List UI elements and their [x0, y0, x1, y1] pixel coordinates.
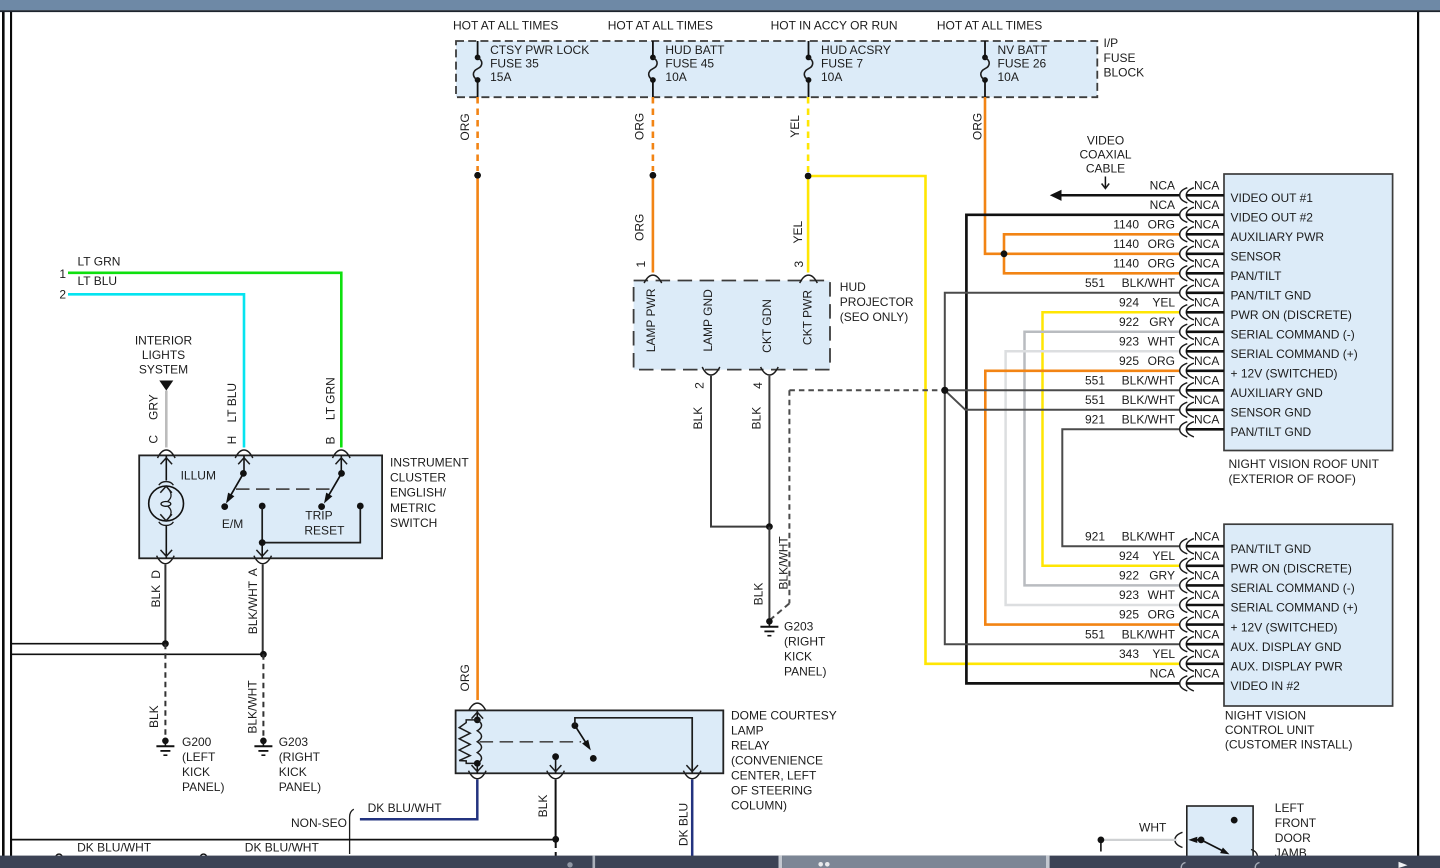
splice symbol left	[56, 854, 63, 861]
svg-text:551: 551	[1085, 627, 1105, 641]
svg-text:NV BATT: NV BATT	[998, 43, 1048, 57]
svg-text:FUSE 45: FUSE 45	[665, 57, 714, 71]
wire ORG from fuse 45 (dashed)	[652, 97, 655, 171]
roof unit pin VIDEO OUT #2 (NCA)	[1150, 198, 1314, 225]
wire BLK from relay	[555, 780, 557, 840]
wire 923 WHT SERIAL COMMAND (+)	[1006, 351, 1180, 605]
HUD projector box (SEO only)	[634, 281, 830, 370]
svg-text:COLUMN): COLUMN)	[731, 798, 787, 812]
svg-text:ORG: ORG	[970, 113, 984, 140]
svg-text:551: 551	[1085, 373, 1105, 387]
wire NCA black loop VIDEO OUT #2 to VIDEO IN #2	[966, 215, 1179, 684]
svg-text:(EXTERIOR OF ROOF): (EXTERIOR OF ROOF)	[1229, 472, 1356, 486]
junction dot fuse45 wire (redraw)	[650, 172, 657, 179]
svg-text:B: B	[323, 436, 337, 444]
svg-text:AUX. DISPLAY GND: AUX. DISPLAY GND	[1231, 640, 1342, 654]
svg-text:15A: 15A	[490, 70, 511, 84]
roof unit pin PWR ON (DISCRETE) (924 YEL)	[1119, 295, 1352, 322]
door box pin arc	[1251, 850, 1258, 857]
wire ORG fuse45 to HUD projector pin 1	[652, 175, 655, 272]
junction BLK / DK BLU/WHT	[552, 836, 559, 843]
svg-text:ORG: ORG	[1148, 256, 1175, 270]
control unit pin AUX. DISPLAY PWR (343 YEL)	[1119, 647, 1343, 674]
pin H connector arc	[235, 450, 253, 458]
svg-text:ORG: ORG	[633, 113, 647, 140]
svg-text:RELAY: RELAY	[731, 738, 769, 752]
svg-text:CLUSTER: CLUSTER	[390, 471, 446, 485]
svg-text:VIDEO: VIDEO	[1087, 133, 1124, 147]
svg-text:NCA: NCA	[1194, 237, 1219, 251]
svg-text:1140: 1140	[1113, 217, 1139, 231]
svg-text:BLK/WHT: BLK/WHT	[1122, 529, 1176, 543]
dashed actuator link	[236, 488, 330, 490]
svg-text:NIGHT VISION: NIGHT VISION	[1225, 708, 1306, 722]
svg-text:HOT AT ALL TIMES: HOT AT ALL TIMES	[937, 19, 1042, 33]
night vision control unit box (customer install)	[1224, 524, 1393, 706]
svg-text:AUXILIARY GND: AUXILIARY GND	[1231, 386, 1324, 400]
svg-text:923: 923	[1119, 588, 1139, 602]
svg-text:GRY: GRY	[1149, 569, 1175, 583]
svg-text:FUSE 35: FUSE 35	[490, 57, 539, 71]
wire from left margin to BLK junction	[12, 643, 166, 645]
svg-text:TRIP: TRIP	[305, 509, 332, 523]
svg-text:YEL: YEL	[1152, 549, 1175, 563]
svg-text:CENTER, LEFT: CENTER, LEFT	[731, 768, 817, 782]
svg-text:4: 4	[751, 382, 765, 389]
wire ORG from fuse 35 (dashed)	[476, 97, 479, 171]
svg-text:CKT GDN: CKT GDN	[760, 299, 774, 353]
svg-text:(RIGHT: (RIGHT	[279, 750, 321, 764]
svg-text:(RIGHT: (RIGHT	[784, 634, 826, 648]
svg-text:BLK/WHT: BLK/WHT	[1122, 393, 1176, 407]
svg-text:ORG: ORG	[633, 214, 647, 241]
svg-text:NON-SEO: NON-SEO	[291, 816, 347, 830]
svg-text:KICK: KICK	[182, 765, 210, 779]
junction on fuse35 ORG wire	[474, 172, 481, 179]
svg-text:BLK/WHT: BLK/WHT	[1122, 373, 1176, 387]
svg-text:343: 343	[1119, 647, 1139, 661]
wire ORG fuse35 to relay	[476, 175, 479, 700]
svg-text:HOT AT ALL TIMES: HOT AT ALL TIMES	[608, 19, 713, 33]
ground G203 (right kick panel, HUD)	[760, 618, 826, 678]
svg-text:ORG: ORG	[458, 113, 472, 140]
switch TRIP RESET	[304, 455, 347, 537]
roof unit pin SERIAL COMMAND (+) (923 WHT)	[1119, 334, 1358, 361]
wire GRY to cluster pin C	[165, 391, 168, 448]
svg-text:BLK: BLK	[536, 795, 550, 818]
control unit pin SERIAL COMMAND (+) (923 WHT)	[1119, 588, 1358, 615]
svg-text:VIDEO OUT #1: VIDEO OUT #1	[1231, 191, 1314, 205]
svg-text:NIGHT VISION ROOF UNIT: NIGHT VISION ROOF UNIT	[1229, 457, 1380, 471]
svg-text:NCA: NCA	[1150, 667, 1175, 681]
relay coil	[459, 710, 483, 773]
svg-text:SENSOR: SENSOR	[1231, 250, 1282, 264]
svg-text:+ 12V (SWITCHED): + 12V (SWITCHED)	[1231, 620, 1338, 634]
svg-text:LT BLU: LT BLU	[225, 383, 239, 423]
svg-text:VIDEO OUT #2: VIDEO OUT #2	[1231, 211, 1314, 225]
svg-text:INSTRUMENT: INSTRUMENT	[390, 456, 469, 470]
svg-text:NCA: NCA	[1194, 256, 1219, 270]
svg-text:PAN/TILT GND: PAN/TILT GND	[1231, 425, 1312, 439]
svg-text:WHT: WHT	[1139, 820, 1167, 834]
pin 3 connector arc	[800, 275, 818, 283]
night vision roof unit box (exterior of roof)	[1224, 174, 1393, 451]
relay pin arcs	[469, 771, 487, 779]
svg-text:H: H	[225, 436, 239, 445]
svg-text:FUSE: FUSE	[1104, 51, 1136, 65]
svg-text:ILLUM: ILLUM	[181, 468, 216, 482]
ground G203 (right kick panel)	[254, 735, 321, 794]
svg-text:E/M: E/M	[222, 517, 243, 531]
svg-text:AUX. DISPLAY PWR: AUX. DISPLAY PWR	[1231, 660, 1344, 674]
fuse F35 (CTSY PWR LOCK FUSE 35 15A)	[473, 41, 589, 97]
svg-text:LAMP: LAMP	[731, 723, 764, 737]
svg-text:923: 923	[1119, 334, 1139, 348]
roof unit pin AUXILIARY PWR (1140 ORG)	[1113, 217, 1324, 244]
wire YEL fuse7 to HUD projector pin 3	[807, 176, 810, 273]
svg-text:NCA: NCA	[1150, 198, 1175, 212]
control unit pin SERIAL COMMAND (-) (922 GRY)	[1119, 569, 1355, 596]
wire DK BLU/WHT from relay (non-SEO)	[360, 780, 477, 820]
svg-text:921: 921	[1085, 412, 1105, 426]
door switch connector arc	[1175, 832, 1183, 847]
svg-text:NCA: NCA	[1150, 178, 1175, 192]
svg-text:AUXILIARY PWR: AUXILIARY PWR	[1231, 230, 1325, 244]
svg-text:LAMP GND: LAMP GND	[701, 289, 715, 352]
svg-text:ORG: ORG	[1148, 608, 1175, 622]
svg-text:PWR ON (DISCRETE): PWR ON (DISCRETE)	[1231, 308, 1352, 322]
wire BLK from HUD pin 2	[711, 376, 769, 527]
wire 922 GRY SERIAL COMMAND (-)	[1025, 332, 1180, 586]
fuse F45 (HUD BATT FUSE 45 10A)	[649, 41, 725, 97]
ground G200 (left kick panel)	[156, 735, 224, 794]
svg-text:PAN/TILT GND: PAN/TILT GND	[1231, 542, 1312, 556]
svg-text:GRY: GRY	[147, 394, 161, 420]
wire WHT to door jamb switch	[1104, 839, 1177, 841]
roof unit pin PAN/TILT GND (921 BLK/WHT)	[1085, 412, 1312, 439]
wire 551 BLK/WHT PAN/TILT GND upper	[945, 293, 1180, 391]
svg-text:BLK: BLK	[147, 705, 161, 728]
svg-text:BLK: BLK	[691, 407, 705, 430]
svg-text:DK BLU/WHT: DK BLU/WHT	[368, 801, 443, 815]
svg-text:(LEFT: (LEFT	[182, 750, 216, 764]
bottom toolbar	[0, 856, 1440, 868]
svg-text:CABLE: CABLE	[1086, 161, 1125, 175]
svg-text:C: C	[147, 435, 161, 444]
svg-text:10A: 10A	[665, 70, 686, 84]
svg-text:DOOR: DOOR	[1275, 831, 1311, 845]
svg-text:(CUSTOMER INSTALL): (CUSTOMER INSTALL)	[1225, 738, 1353, 752]
svg-text:CONTROL UNIT: CONTROL UNIT	[1225, 723, 1315, 737]
svg-text:+ 12V (SWITCHED): + 12V (SWITCHED)	[1231, 367, 1338, 381]
svg-text:LT GRN: LT GRN	[323, 377, 337, 420]
svg-text:PANEL): PANEL)	[784, 664, 826, 678]
svg-text:SWITCH: SWITCH	[390, 516, 437, 530]
wire video coaxial cable (VIDEO OUT #1)	[1061, 194, 1179, 197]
instrument cluster english/metric switch box U-cluster	[139, 455, 382, 558]
junction node 1140 ORG	[1001, 250, 1008, 257]
relay actuator dashed link	[480, 741, 581, 743]
svg-text:ENGLISH/: ENGLISH/	[390, 486, 447, 500]
svg-text:YEL: YEL	[788, 115, 802, 138]
svg-text:GRY: GRY	[1149, 315, 1175, 329]
dome courtesy lamp relay box K1	[456, 710, 724, 773]
roof unit pin SENSOR GND (551 BLK/WHT)	[1085, 393, 1312, 420]
svg-text:KICK: KICK	[784, 649, 812, 663]
relay switch	[550, 718, 698, 774]
svg-text:2: 2	[59, 288, 66, 302]
svg-text:DK BLU/WHT: DK BLU/WHT	[245, 840, 320, 854]
roof unit pin + 12V (SWITCHED) (925 ORG)	[1119, 354, 1338, 381]
control unit pin VIDEO IN #2 (NCA)	[1150, 667, 1301, 694]
svg-text:YEL: YEL	[1152, 295, 1175, 309]
svg-text:YEL: YEL	[791, 220, 805, 243]
svg-text:NCA: NCA	[1194, 217, 1219, 231]
junction on fuse7 YEL wire	[805, 173, 812, 180]
wire 551 BLK/WHT down to AUX. DISPLAY GND	[945, 390, 1180, 644]
svg-text:BLK: BLK	[149, 585, 163, 608]
svg-text:INTERIOR: INTERIOR	[135, 333, 193, 347]
wire 551 BLK/WHT dashed from night vision harness	[788, 390, 790, 603]
pin 1 connector arc	[644, 275, 662, 283]
wire ORG branch to AUXILIARY PWR	[1004, 234, 1179, 254]
wire from left margin to BLK/WHT junction	[12, 653, 264, 655]
svg-text:NCA: NCA	[1194, 647, 1219, 661]
svg-text:NCA: NCA	[1194, 178, 1219, 192]
svg-text:551: 551	[1085, 393, 1105, 407]
svg-text:NCA: NCA	[1194, 627, 1219, 641]
svg-text:PANEL): PANEL)	[182, 780, 224, 794]
svg-text:NCA: NCA	[1194, 529, 1219, 543]
wire 925 ORG +12V switched	[985, 371, 1179, 625]
svg-text:HOT AT ALL TIMES: HOT AT ALL TIMES	[453, 19, 558, 33]
svg-text:HUD: HUD	[840, 280, 866, 294]
svg-text:BLK/WHT: BLK/WHT	[246, 580, 260, 634]
svg-text:NCA: NCA	[1194, 373, 1219, 387]
page border left (outer)	[2, 11, 5, 856]
svg-text:HUD ACSRY: HUD ACSRY	[821, 43, 891, 57]
svg-text:NCA: NCA	[1194, 354, 1219, 368]
page border left (inner)	[10, 11, 12, 856]
lamp ILLUM	[149, 455, 216, 558]
svg-text:BLK/WHT: BLK/WHT	[1122, 412, 1176, 426]
svg-text:YEL: YEL	[1152, 647, 1175, 661]
svg-text:BLK: BLK	[749, 407, 763, 430]
svg-text:BLK/WHT: BLK/WHT	[245, 680, 259, 734]
pin D connector arc	[157, 556, 175, 564]
wire 924 YEL PWR ON	[1043, 312, 1180, 566]
svg-text:LEFT: LEFT	[1275, 801, 1305, 815]
roof unit pin PAN/TILT GND (551 BLK/WHT)	[1085, 276, 1312, 303]
svg-text:DK BLU: DK BLU	[677, 803, 691, 846]
toolbar dot	[567, 862, 572, 867]
wire BLK dashed to G200	[164, 644, 166, 738]
svg-text:VIDEO IN #2: VIDEO IN #2	[1231, 679, 1301, 693]
svg-text:3: 3	[792, 261, 806, 268]
control unit pin PWR ON (DISCRETE) (924 YEL)	[1119, 549, 1352, 576]
svg-text:551: 551	[1085, 276, 1105, 290]
junction dot fuse35 wire (redraw)	[474, 172, 481, 179]
svg-text:ORG: ORG	[458, 664, 472, 691]
door jamb switch contacts	[1188, 817, 1237, 855]
svg-text:DK BLU/WHT: DK BLU/WHT	[77, 840, 152, 854]
svg-text:LIGHTS: LIGHTS	[142, 348, 185, 362]
svg-text:921: 921	[1085, 529, 1105, 543]
svg-text:PROJECTOR: PROJECTOR	[840, 295, 914, 309]
svg-text:1: 1	[59, 267, 66, 281]
svg-text:G203: G203	[279, 735, 309, 749]
svg-text:NCA: NCA	[1194, 334, 1219, 348]
svg-text:2: 2	[693, 382, 707, 389]
wire 921 BLK/WHT PAN/TILT GND loop	[1062, 429, 1179, 546]
pin 4 connector arc	[761, 367, 779, 375]
svg-text:NCA: NCA	[1194, 276, 1219, 290]
svg-text:BLK/WHT: BLK/WHT	[1122, 276, 1176, 290]
wire pin A internal	[256, 503, 363, 559]
svg-text:NCA: NCA	[1194, 569, 1219, 583]
pin B connector arc	[333, 450, 351, 458]
wire 551 BLK/WHT SENSOR GND	[945, 390, 1180, 410]
svg-text:SYSTEM: SYSTEM	[139, 362, 188, 376]
svg-text:BLK/WHT: BLK/WHT	[1122, 627, 1176, 641]
svg-text:ORG: ORG	[1148, 237, 1175, 251]
svg-text:925: 925	[1119, 354, 1139, 368]
left front door jamb switch box	[1187, 806, 1253, 860]
I/P fuse block box	[456, 41, 1097, 97]
svg-text:METRIC: METRIC	[390, 501, 436, 515]
junction BLK/WHT	[260, 651, 267, 658]
wire BLK from pin D	[164, 565, 166, 644]
svg-text:924: 924	[1119, 295, 1139, 309]
option bracket	[350, 809, 354, 854]
svg-text:ORG: ORG	[1148, 217, 1175, 231]
relay input connector arc	[469, 703, 487, 711]
svg-text:D: D	[149, 570, 163, 579]
arrow to coax wire	[1104, 177, 1106, 188]
svg-text:PANEL): PANEL)	[279, 780, 321, 794]
control unit pin AUX. DISPLAY GND (551 BLK/WHT)	[1085, 627, 1342, 654]
svg-text:OF STEERING: OF STEERING	[731, 783, 812, 797]
svg-text:G200: G200	[182, 735, 212, 749]
junction BLK	[162, 640, 169, 647]
svg-text:SERIAL COMMAND (-): SERIAL COMMAND (-)	[1231, 581, 1355, 595]
toolbar arcs	[1181, 863, 1185, 868]
svg-text:NCA: NCA	[1194, 608, 1219, 622]
wire WHT terminal	[1098, 837, 1105, 844]
svg-text:SERIAL COMMAND (-): SERIAL COMMAND (-)	[1231, 328, 1355, 342]
roof unit pin SERIAL COMMAND (-) (922 GRY)	[1119, 315, 1355, 342]
svg-text:10A: 10A	[998, 70, 1019, 84]
toolbar dots	[818, 862, 823, 867]
roof unit pin VIDEO OUT #1 (NCA)	[1150, 178, 1314, 205]
svg-text:NCA: NCA	[1194, 588, 1219, 602]
roof unit pin PAN/TILT (1140 ORG)	[1113, 256, 1282, 283]
top toolbar	[0, 0, 1440, 10]
splice symbol right	[200, 854, 207, 861]
svg-text:10A: 10A	[821, 70, 842, 84]
svg-text:925: 925	[1119, 608, 1139, 622]
wire YEL from fuse 7 (dashed)	[807, 97, 810, 172]
svg-text:CKT PWR: CKT PWR	[800, 290, 814, 345]
svg-text:FUSE 26: FUSE 26	[998, 57, 1047, 71]
control unit pin PAN/TILT GND (921 BLK/WHT)	[1085, 529, 1312, 556]
svg-text:922: 922	[1119, 569, 1139, 583]
svg-text:WHT: WHT	[1148, 588, 1176, 602]
pin C connector arc	[158, 450, 176, 458]
wire BLK to ground G203	[768, 527, 770, 618]
svg-text:ORG: ORG	[1148, 354, 1175, 368]
svg-text:1: 1	[634, 261, 648, 268]
wire 551 BLK/WHT dashed horizontal	[789, 389, 941, 391]
switch E/M	[221, 455, 250, 531]
wire ORG branch to PAN/TILT	[1004, 254, 1179, 273]
control unit pin + 12V (SWITCHED) (925 ORG)	[1119, 608, 1338, 635]
svg-text:FRONT: FRONT	[1275, 816, 1317, 830]
svg-text:LAMP PWR: LAMP PWR	[644, 288, 658, 352]
svg-text:BLOCK: BLOCK	[1104, 65, 1145, 79]
svg-text:DOME COURTESY: DOME COURTESY	[731, 708, 837, 722]
roof unit pin SENSOR (1140 ORG)	[1113, 237, 1281, 264]
svg-text:924: 924	[1119, 549, 1139, 563]
svg-text:1140: 1140	[1113, 237, 1139, 251]
svg-text:SERIAL COMMAND (+): SERIAL COMMAND (+)	[1231, 601, 1358, 615]
svg-text:PAN/TILT: PAN/TILT	[1231, 269, 1283, 283]
svg-text:BLK: BLK	[751, 583, 765, 606]
svg-text:1140: 1140	[1113, 256, 1139, 270]
svg-text:(CONVENIENCE: (CONVENIENCE	[731, 753, 823, 767]
junction on fuse45 ORG wire	[650, 172, 657, 179]
svg-text:NCA: NCA	[1194, 412, 1219, 426]
svg-text:(SEO ONLY): (SEO ONLY)	[840, 310, 908, 324]
svg-text:HUD BATT: HUD BATT	[665, 43, 725, 57]
wire DK BLU/WHT bottom run	[12, 839, 556, 841]
svg-text:WHT: WHT	[1148, 334, 1176, 348]
svg-text:BLK/WHT: BLK/WHT	[777, 536, 791, 590]
wire YEL branch to night vision control unit (343 YEL AUX. DISPLAY PWR)	[808, 176, 1179, 664]
page border right	[1417, 11, 1419, 856]
fuse F7 (HUD ACSRY FUSE 7 10A)	[804, 41, 890, 97]
svg-text:NCA: NCA	[1194, 549, 1219, 563]
junction dot fuse7 wire (redraw)	[805, 173, 812, 180]
wire DK BLU from relay	[691, 780, 694, 857]
svg-text:LT GRN: LT GRN	[78, 254, 121, 268]
svg-text:NCA: NCA	[1194, 667, 1219, 681]
off-page arrow from interior lights system	[159, 381, 173, 391]
wire BLK from HUD pin 4	[768, 376, 770, 527]
wire BLK/WHT from pin A	[262, 565, 264, 655]
svg-text:PWR ON (DISCRETE): PWR ON (DISCRETE)	[1231, 562, 1352, 576]
svg-text:922: 922	[1119, 315, 1139, 329]
svg-text:NCA: NCA	[1194, 198, 1219, 212]
wire 551 BLK/WHT AUXILIARY GND	[945, 389, 1180, 391]
wire BLK dashed continuation	[555, 842, 557, 856]
junction BLK	[766, 523, 773, 530]
pin 2 connector arc	[702, 367, 720, 375]
svg-text:G203: G203	[784, 619, 814, 633]
fuse F26 (NV BATT FUSE 26 10A)	[981, 41, 1048, 97]
roof unit pin AUXILIARY GND (551 BLK/WHT)	[1085, 373, 1323, 400]
svg-text:PAN/TILT GND: PAN/TILT GND	[1231, 289, 1312, 303]
svg-text:FUSE 7: FUSE 7	[821, 57, 863, 71]
wire BLK/WHT dashed to G203	[262, 654, 264, 737]
svg-text:RESET: RESET	[304, 523, 345, 537]
svg-text:SENSOR GND: SENSOR GND	[1231, 406, 1312, 420]
svg-text:COAXIAL: COAXIAL	[1079, 147, 1131, 161]
svg-text:LT BLU: LT BLU	[78, 274, 118, 288]
svg-text:KICK: KICK	[279, 765, 307, 779]
svg-text:NCA: NCA	[1194, 315, 1219, 329]
svg-text:NCA: NCA	[1194, 393, 1219, 407]
